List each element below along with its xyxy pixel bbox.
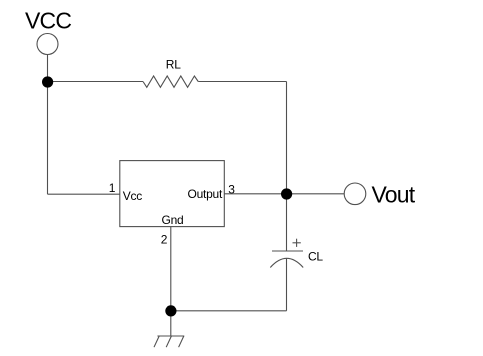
terminal Vout [344, 183, 366, 205]
wire junction to Vout terminal [287, 193, 345, 195]
wire VCC terminal to junction [47, 55, 49, 82]
junction at ground node [165, 305, 176, 316]
svg-text:Vout: Vout [372, 182, 416, 208]
svg-text:3: 3 [228, 183, 235, 197]
wire junction to ground symbol [170, 311, 172, 336]
svg-text:Output: Output [188, 187, 223, 201]
wire junction to resistor RL [48, 81, 144, 83]
svg-text:CL: CL [308, 250, 323, 264]
junction at output node [281, 188, 292, 199]
resistor RL [143, 76, 198, 87]
svg-text:Gnd: Gnd [162, 213, 184, 227]
wire Gnd pin 2 down to ground junction [170, 227, 172, 311]
junction at VCC rail [42, 76, 53, 87]
wire bottom rail horizontal [171, 310, 287, 312]
wire pin 3 to output junction [224, 193, 286, 195]
capacitor CL [270, 251, 303, 268]
svg-text:Vcc: Vcc [123, 189, 143, 203]
wire capacitor bottom to bottom rail [286, 258, 288, 311]
capacitor CL polarity plus sign [293, 239, 301, 247]
wire into pin 1 [48, 193, 120, 195]
wire right vertical from corner down to capacitor top [286, 82, 288, 252]
terminal VCC [37, 34, 58, 55]
svg-text:RL: RL [166, 58, 181, 72]
ground [154, 336, 184, 347]
svg-text:2: 2 [161, 233, 168, 247]
svg-text:VCC: VCC [25, 8, 71, 34]
svg-text:1: 1 [109, 181, 116, 195]
wire left vertical from junction down [47, 82, 49, 195]
wire resistor to top-right corner [198, 81, 286, 83]
IC U1 body [120, 161, 225, 227]
